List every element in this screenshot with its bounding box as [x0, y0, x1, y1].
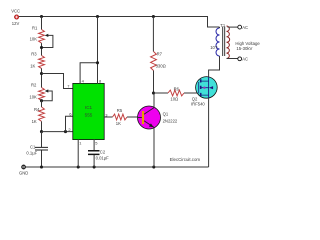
svg-text:10T: 10T — [210, 45, 218, 50]
svg-text:AC: AC — [242, 57, 248, 62]
svg-text:IC1: IC1 — [85, 105, 93, 110]
node junction pin4 pin8 — [96, 61, 99, 64]
node junction pin6 branch — [64, 130, 67, 133]
svg-text:2N2222: 2N2222 — [163, 118, 178, 123]
GND terminal — [21, 165, 25, 169]
wire R6 to Q2 gate — [184, 92, 199, 94]
svg-text:1K: 1K — [32, 119, 37, 124]
svg-text:10K: 10K — [29, 94, 37, 99]
wire Q2 drain — [209, 56, 220, 77]
svg-text:8: 8 — [99, 79, 102, 84]
svg-text:C1: C1 — [30, 145, 36, 150]
node junction R1 bottom — [40, 46, 43, 49]
svg-text:7: 7 — [67, 84, 70, 89]
wire Q1 emitter — [153, 128, 155, 167]
resistor R6 — [168, 90, 184, 96]
svg-text:R6: R6 — [174, 86, 180, 91]
wire R4 to junction — [41, 121, 43, 131]
svg-text:R7: R7 — [157, 51, 163, 56]
wire top VCC rail — [19, 17, 220, 28]
node junction R3 bottom pin7 — [40, 72, 43, 75]
svg-text:15-30kV: 15-30kV — [236, 46, 252, 51]
svg-text:R2: R2 — [31, 83, 37, 88]
resistor R2 potentiometer — [39, 88, 53, 101]
node junction top rail pin8 — [96, 15, 99, 18]
svg-text:4: 4 — [82, 79, 85, 84]
node junction R2 bottom — [40, 99, 43, 102]
wire pin 2 — [42, 131, 74, 133]
resistor R4 — [39, 107, 45, 121]
svg-text:VCC: VCC — [11, 9, 20, 14]
wire pin 7 — [42, 74, 74, 89]
svg-text:10Ω: 10Ω — [170, 97, 178, 102]
wire Q2 source — [208, 98, 210, 167]
wire R2 to R4 — [41, 100, 43, 107]
svg-text:6: 6 — [69, 111, 72, 116]
node junction top rail R1 — [40, 15, 43, 18]
wire R3 to R2 — [41, 68, 43, 87]
svg-text:0.1µF: 0.1µF — [26, 151, 37, 156]
node junction top rail R7 — [152, 15, 155, 18]
svg-text:0.01µF: 0.01µF — [96, 155, 110, 160]
wire R1 to R3 — [41, 43, 43, 55]
wire junction to R6 — [154, 92, 169, 94]
resistor R7 — [151, 17, 157, 94]
svg-text:GND: GND — [19, 170, 28, 175]
svg-text:R4: R4 — [34, 107, 40, 112]
svg-text:IRF540: IRF540 — [191, 102, 205, 107]
svg-text:ElecCircuit.com: ElecCircuit.com — [170, 157, 201, 162]
wire Q1 collector — [153, 93, 155, 107]
svg-text:R1: R1 — [32, 25, 38, 30]
transformer T1 — [216, 26, 230, 59]
svg-text:Q1: Q1 — [163, 112, 169, 117]
transistor Q1 2N2222 — [138, 106, 161, 129]
svg-text:R3: R3 — [31, 51, 37, 56]
svg-text:AC: AC — [242, 25, 248, 30]
svg-text:555: 555 — [85, 113, 93, 118]
resistor R5 — [113, 114, 128, 120]
terminal AC top — [238, 25, 242, 29]
svg-text:330Ω: 330Ω — [156, 63, 166, 68]
wire pin 1 — [77, 140, 79, 168]
node junction rail C1 — [40, 165, 43, 168]
node junction R7 R6 Q1 — [152, 91, 155, 94]
wire pin 4 — [80, 63, 97, 84]
op-amp timer IC1 555 — [73, 83, 104, 139]
svg-text:R5: R5 — [117, 108, 123, 113]
svg-text:1: 1 — [79, 141, 82, 146]
wire pin 5 — [93, 140, 95, 168]
svg-text:1K: 1K — [30, 64, 35, 69]
resistor R1 potentiometer — [39, 30, 53, 48]
svg-text:T1: T1 — [220, 23, 226, 28]
node junction rail Q1 emitter — [152, 165, 155, 168]
wire R5 to Q1 base — [127, 116, 139, 118]
capacitor C1 — [35, 132, 48, 167]
svg-text:5: 5 — [95, 141, 98, 146]
ground rail — [26, 166, 209, 168]
transistor Q2 IRF540 mosfet — [196, 77, 218, 99]
node junction R4 C1 — [40, 130, 43, 133]
node junction rail pin1 — [77, 165, 80, 168]
wire pin 6 — [66, 116, 74, 131]
wire secondary bottom — [227, 58, 238, 60]
wire secondary top — [228, 26, 238, 28]
svg-text:12V: 12V — [12, 21, 20, 26]
svg-text:1K: 1K — [116, 121, 121, 126]
svg-text:C2: C2 — [100, 150, 106, 155]
wire pin 8 — [97, 17, 99, 84]
resistor R3 — [39, 56, 45, 69]
svg-text:10K: 10K — [30, 36, 38, 41]
node junction rail C2 — [93, 165, 96, 168]
wire VCC column to R1 — [41, 17, 43, 30]
VCC terminal 12V — [14, 15, 19, 20]
wire pin 3 — [104, 116, 113, 118]
capacitor C2 — [88, 151, 100, 155]
terminal AC bottom — [238, 57, 242, 61]
